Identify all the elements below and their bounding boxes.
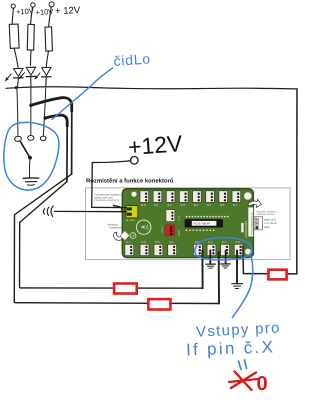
svg-text:0: 0 <box>257 373 268 395</box>
svg-text:PORT: PORT <box>177 230 180 237</box>
svg-text:konektorů: konektorů <box>110 225 122 229</box>
svg-text:GND: GND <box>264 226 270 229</box>
svg-text:C.4: C.4 <box>169 240 174 244</box>
svg-text:B.5: B.5 <box>207 203 212 207</box>
svg-text:+12V: +12V <box>127 130 184 160</box>
svg-text:C.7: C.7 <box>126 240 131 244</box>
svg-text:AXEboard28: AXEboard28 <box>244 221 248 238</box>
svg-text:B.3: B.3 <box>181 203 186 207</box>
svg-text:+: + <box>134 207 136 211</box>
svg-text:B.6: B.6 <box>220 203 225 207</box>
svg-text:C.5: C.5 <box>155 240 160 244</box>
svg-text:C.1: C.1 <box>222 240 227 244</box>
svg-text:B.7: B.7 <box>233 203 238 207</box>
svg-text:+10V: +10V <box>16 7 34 17</box>
svg-text:čidLo: čidLo <box>113 50 151 69</box>
svg-text:+ 12V: + 12V <box>55 5 81 17</box>
svg-text:B.4: B.4 <box>194 203 199 207</box>
svg-text:If pin č.X: If pin č.X <box>186 337 276 359</box>
svg-text:v rozmezu +9 až 12 V: v rozmezu +9 až 12 V <box>94 199 119 202</box>
svg-text:-: - <box>134 213 135 217</box>
svg-text:+5 V / IR IN: +5 V / IR IN <box>264 222 277 225</box>
svg-text:C.6: C.6 <box>141 240 146 244</box>
svg-text:B.1: B.1 <box>154 203 159 207</box>
svg-text:B.0: B.0 <box>141 203 146 207</box>
svg-text:M +12V: M +12V <box>126 219 135 222</box>
svg-text:www.hobbyrobot.cz: www.hobbyrobot.cz <box>250 212 253 235</box>
svg-text:PIC16: PIC16 <box>193 223 201 226</box>
svg-text:Rozmístění a funkce konektorů: Rozmístění a funkce konektorů <box>86 177 174 184</box>
svg-text:C.0: C.0 <box>236 240 241 244</box>
svg-text:+10V: +10V <box>35 7 53 17</box>
svg-text:male (viz. cerne):: male (viz. cerne): <box>257 213 276 216</box>
svg-text:vystup: vystup <box>161 226 164 233</box>
svg-text:C.2: C.2 <box>208 240 213 244</box>
svg-text:F88-I/P: F88-I/P <box>202 223 211 226</box>
svg-text:B.2: B.2 <box>168 203 173 207</box>
svg-text:ALM: ALM <box>177 216 180 221</box>
svg-text:GND / OUT: GND / OUT <box>264 218 277 221</box>
